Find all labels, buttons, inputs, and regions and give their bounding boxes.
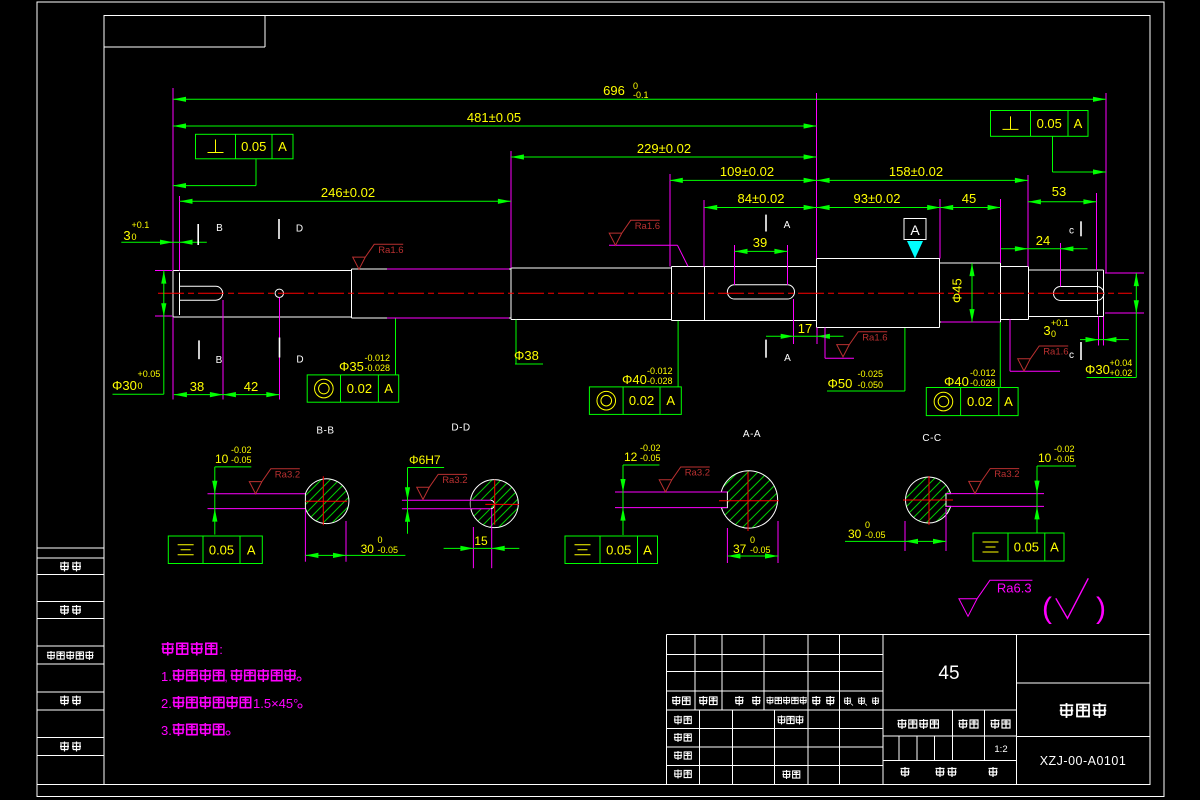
dimension 38 [174,394,223,396]
center hole D [275,289,283,297]
svg-text:-0.050: -0.050 [858,380,884,390]
shaft section phi40 right journal [1000,263,1002,322]
roughness Ra3.2 D-D [417,474,468,499]
dimension 10 -0.02/-0.05 C-C [1036,466,1038,533]
svg-text:158±0.02: 158±0.02 [889,164,943,179]
svg-text:(: ( [1042,592,1052,625]
svg-text:Ra3.2: Ra3.2 [275,469,300,480]
section B-B keyway extension lines [208,493,306,495]
svg-text:Φ35: Φ35 [339,359,364,374]
svg-text:38: 38 [190,379,204,394]
svg-text:0.02: 0.02 [347,381,372,396]
left revision strip [37,547,104,549]
svg-text:A: A [384,381,393,396]
svg-text:15: 15 [474,534,488,548]
svg-text:c: c [1069,350,1074,361]
shaft centerline [158,292,1132,294]
roughness Ra1.6 right journal [1009,319,1011,371]
svg-text:A: A [247,542,256,557]
label phi50 with tolerance [904,328,906,391]
roughness Ra1.6 on phi35 [353,244,404,269]
datum A flag [904,219,926,240]
svg-text:-0.05: -0.05 [865,530,886,540]
svg-text:53: 53 [1052,184,1066,199]
svg-text:0.05: 0.05 [606,542,631,557]
roughness Ra1.6 below phi50 [824,328,826,359]
svg-text:D: D [296,224,303,235]
tolerance frame concentricity phi40 right [926,388,1018,416]
svg-text:2.: 2. [161,696,172,711]
svg-text:229±0.02: 229±0.02 [637,141,691,156]
dimension 45 [940,207,1000,209]
dimension 10 -0.02/-0.05 B-B [214,467,216,535]
shaft section phi30 right end [1028,266,1030,319]
svg-text:45: 45 [962,191,976,206]
dimension 481±0.05 [173,125,817,127]
shaft section phi38 [510,268,512,319]
svg-text:c: c [1069,226,1074,237]
tolerance frame symmetry A-A [565,536,658,564]
svg-text:-0.05: -0.05 [231,455,252,465]
svg-text:A-A: A-A [743,429,761,440]
dimension 24 [1001,248,1088,250]
dimension 696-0.1 [173,98,1106,100]
section D-D hole slot [471,500,492,509]
extension lines [155,88,1144,400]
svg-text:Φ6H7: Φ6H7 [409,453,441,467]
svg-text:-0.028: -0.028 [647,376,673,386]
svg-text:Φ38: Φ38 [514,348,539,363]
dimension 229±0.02 [511,156,817,158]
svg-text:+0.1: +0.1 [1051,318,1069,328]
leader top-right frame [1052,136,1054,172]
svg-text:B: B [216,355,223,366]
section D-D centerlines [494,480,496,525]
svg-text:0: 0 [138,381,143,391]
svg-text:Ra3.2: Ra3.2 [442,475,467,486]
shaft section phi45 [939,259,941,328]
svg-text:+0.04: +0.04 [1110,358,1133,368]
shaft section phi50 collar [816,259,818,328]
dimension 37 A-A [726,528,728,563]
svg-text:0.02: 0.02 [967,394,992,409]
svg-text:3.: 3. [161,723,172,738]
svg-text:Ra3.2: Ra3.2 [685,468,710,479]
tolerance frame concentricity phi40 left [589,387,681,415]
svg-text:B-B: B-B [316,426,334,437]
svg-text:-0.05: -0.05 [750,545,771,555]
chamfer line left end [179,272,181,315]
label phi40 left with tolerance [677,321,679,387]
svg-text:Φ50: Φ50 [828,376,853,391]
svg-text:0.05: 0.05 [209,542,234,557]
cut line B marks [197,224,199,245]
svg-text:0.05: 0.05 [241,139,266,154]
svg-text:-0.05: -0.05 [1054,454,1075,464]
svg-text:A: A [666,393,675,408]
svg-text:1.: 1. [161,669,172,684]
svg-text:-0.02: -0.02 [231,445,252,455]
tolerance frame symmetry C-C [973,533,1064,561]
dimension phi45 vertical [971,263,973,322]
svg-text:A: A [1004,394,1013,409]
shaft section phi30 left journal [173,270,352,317]
svg-text:17: 17 [798,321,812,336]
dimension phi30+0.04 right [1135,273,1137,313]
tolerance frame perpendicularity top-right [991,111,1089,137]
svg-text:0.05: 0.05 [1014,540,1039,555]
tolerance frame concentricity phi35 [307,375,399,402]
section B-B centerlines [322,476,324,525]
svg-text:D: D [296,355,303,366]
svg-text:-0.1: -0.1 [633,90,649,100]
svg-text:246±0.02: 246±0.02 [321,185,375,200]
svg-text:12: 12 [624,450,638,464]
svg-text:-0.02: -0.02 [640,443,661,453]
dimension 3+0.1 left chamfer [121,241,207,243]
svg-text:A: A [784,220,791,231]
dimension 17 [766,335,844,337]
svg-text:42: 42 [244,379,258,394]
label phi35 with tolerance [395,319,397,375]
svg-text:45: 45 [938,663,959,684]
top-left title strip box [104,46,265,48]
left strip labels [60,562,69,572]
dimension 93±0.02 [817,207,941,209]
svg-text:0: 0 [1051,329,1056,339]
svg-text:+0.05: +0.05 [138,369,161,379]
svg-text:Ra1.6: Ra1.6 [862,332,887,343]
svg-text:-0.028: -0.028 [365,363,391,373]
dimension 30 C-C [904,521,906,551]
dimension 42 [223,394,279,396]
svg-text:109±0.02: 109±0.02 [720,164,774,179]
title block grid [667,635,1151,785]
keyway slot left end (open) [180,286,223,300]
svg-text:84±0.02: 84±0.02 [738,191,785,206]
svg-text:Ra3.2: Ra3.2 [994,469,1019,480]
svg-text:B: B [216,223,223,234]
svg-text:93±0.02: 93±0.02 [854,191,901,206]
svg-text:-0.012: -0.012 [365,353,391,363]
svg-text::: : [219,642,223,657]
svg-text:1.5×45°: 1.5×45° [253,696,298,711]
svg-text:0: 0 [132,232,137,242]
leader top-left frame [255,159,257,186]
svg-text:0.05: 0.05 [1037,116,1062,131]
svg-text:Ra1.6: Ra1.6 [1043,347,1068,358]
svg-text:Φ40: Φ40 [622,372,647,387]
section A-A centerlines [747,472,749,531]
svg-text:-0.025: -0.025 [858,369,884,379]
svg-text:Ra1.6: Ra1.6 [378,245,403,256]
roughness Ra3.2 B-B [249,469,299,494]
svg-text:3: 3 [1043,323,1050,338]
dimension phi6H7 D-D [407,468,409,534]
svg-text:A: A [643,542,652,557]
svg-text:Φ30: Φ30 [112,378,137,393]
svg-text:A: A [910,222,920,238]
svg-text:-0.02: -0.02 [1054,444,1075,454]
section C-C keyway extension lines [946,493,1044,495]
dimension 158±0.02 [817,179,1028,181]
svg-text:A: A [784,353,791,364]
section C-C centerlines [928,476,930,525]
dimension 84±0.02 [704,207,816,209]
cut line C marks [1080,221,1082,236]
svg-text:0: 0 [865,520,870,530]
svg-text:24: 24 [1036,233,1050,248]
shaft section phi40 left journal and keyed seat [671,266,673,320]
svg-text:1:2: 1:2 [994,744,1007,755]
svg-text:0.02: 0.02 [629,393,654,408]
svg-text:0: 0 [750,535,755,545]
svg-text:D-D: D-D [451,423,470,434]
svg-text:C-C: C-C [922,433,941,444]
datum A cyan triangle [907,241,923,259]
svg-text:-0.05: -0.05 [378,545,399,555]
svg-text:、: 、 [865,698,873,707]
svg-text:+0.02: +0.02 [1110,368,1133,378]
dimension 30 B-B [304,510,306,562]
svg-text:,: , [224,670,227,684]
svg-text:XZJ-00-A0101: XZJ-00-A0101 [1040,754,1127,768]
cut line A marks [765,215,767,232]
dimension 12 -0.02/-0.05 A-A [622,465,624,535]
svg-text:37: 37 [733,542,747,556]
magenta overlaid contour segments [387,268,509,270]
svg-text:Ra1.6: Ra1.6 [635,221,660,232]
svg-text:Φ30: Φ30 [1085,362,1110,377]
part name 从动轴 [1060,703,1074,718]
svg-text:+0.1: +0.1 [132,220,150,230]
sheet count row [901,767,910,777]
svg-text:-0.05: -0.05 [640,453,661,463]
svg-text:39: 39 [753,235,767,250]
shaft section phi35 [351,269,353,318]
cut line D marks [278,219,280,239]
svg-text:-0.012: -0.012 [970,368,996,378]
label phi38 [515,320,517,364]
stage mark labels [898,719,907,729]
svg-text:-0.028: -0.028 [970,378,996,388]
tolerance frame perpendicularity top-left [196,134,294,159]
svg-text:A: A [278,139,287,154]
dimension 109±0.02 [670,179,817,181]
svg-text:10: 10 [215,452,229,466]
dimension 53 [1028,201,1097,203]
roughness Ra1.6 floating with leader [609,244,678,246]
svg-text:696: 696 [603,83,625,98]
svg-text:481±0.05: 481±0.05 [467,110,521,125]
keyway slot middle (39) [727,285,794,299]
svg-text:A: A [1050,540,1059,555]
roughness Ra3.2 C-C [969,469,1020,494]
section A-A keyway extension lines [615,491,727,493]
label phi40 right with tolerance [999,323,1001,388]
svg-text:Φ40: Φ40 [944,374,969,389]
svg-text:30: 30 [361,542,375,556]
svg-text:-0.012: -0.012 [647,366,673,376]
tolerance frame symmetry B-B [168,536,262,564]
svg-text:10: 10 [1038,451,1052,465]
svg-text:Ra6.3: Ra6.3 [997,581,1032,596]
svg-text:A: A [1074,116,1083,131]
svg-text:0: 0 [378,535,383,545]
dimension phi30+0.05 left [163,271,165,317]
svg-text:30: 30 [848,527,862,541]
dimension 3+0.1 right chamfer [1080,339,1129,341]
title block texts [672,696,681,706]
svg-text:3: 3 [123,228,130,243]
roughness Ra3.2 A-A [659,467,710,492]
roughness Ra6.3 general [959,580,1033,616]
keyway slot right end [1054,287,1104,301]
dimension 15 D-D [472,527,474,568]
svg-text:、: 、 [851,698,859,707]
svg-text:Φ45: Φ45 [950,278,965,303]
svg-text:): ) [1096,592,1106,625]
tech requirements heading [162,642,174,656]
dimension 246±0.02 [180,200,511,202]
dimension 39 keyway [735,250,788,252]
chamfer line right end [1097,272,1099,315]
